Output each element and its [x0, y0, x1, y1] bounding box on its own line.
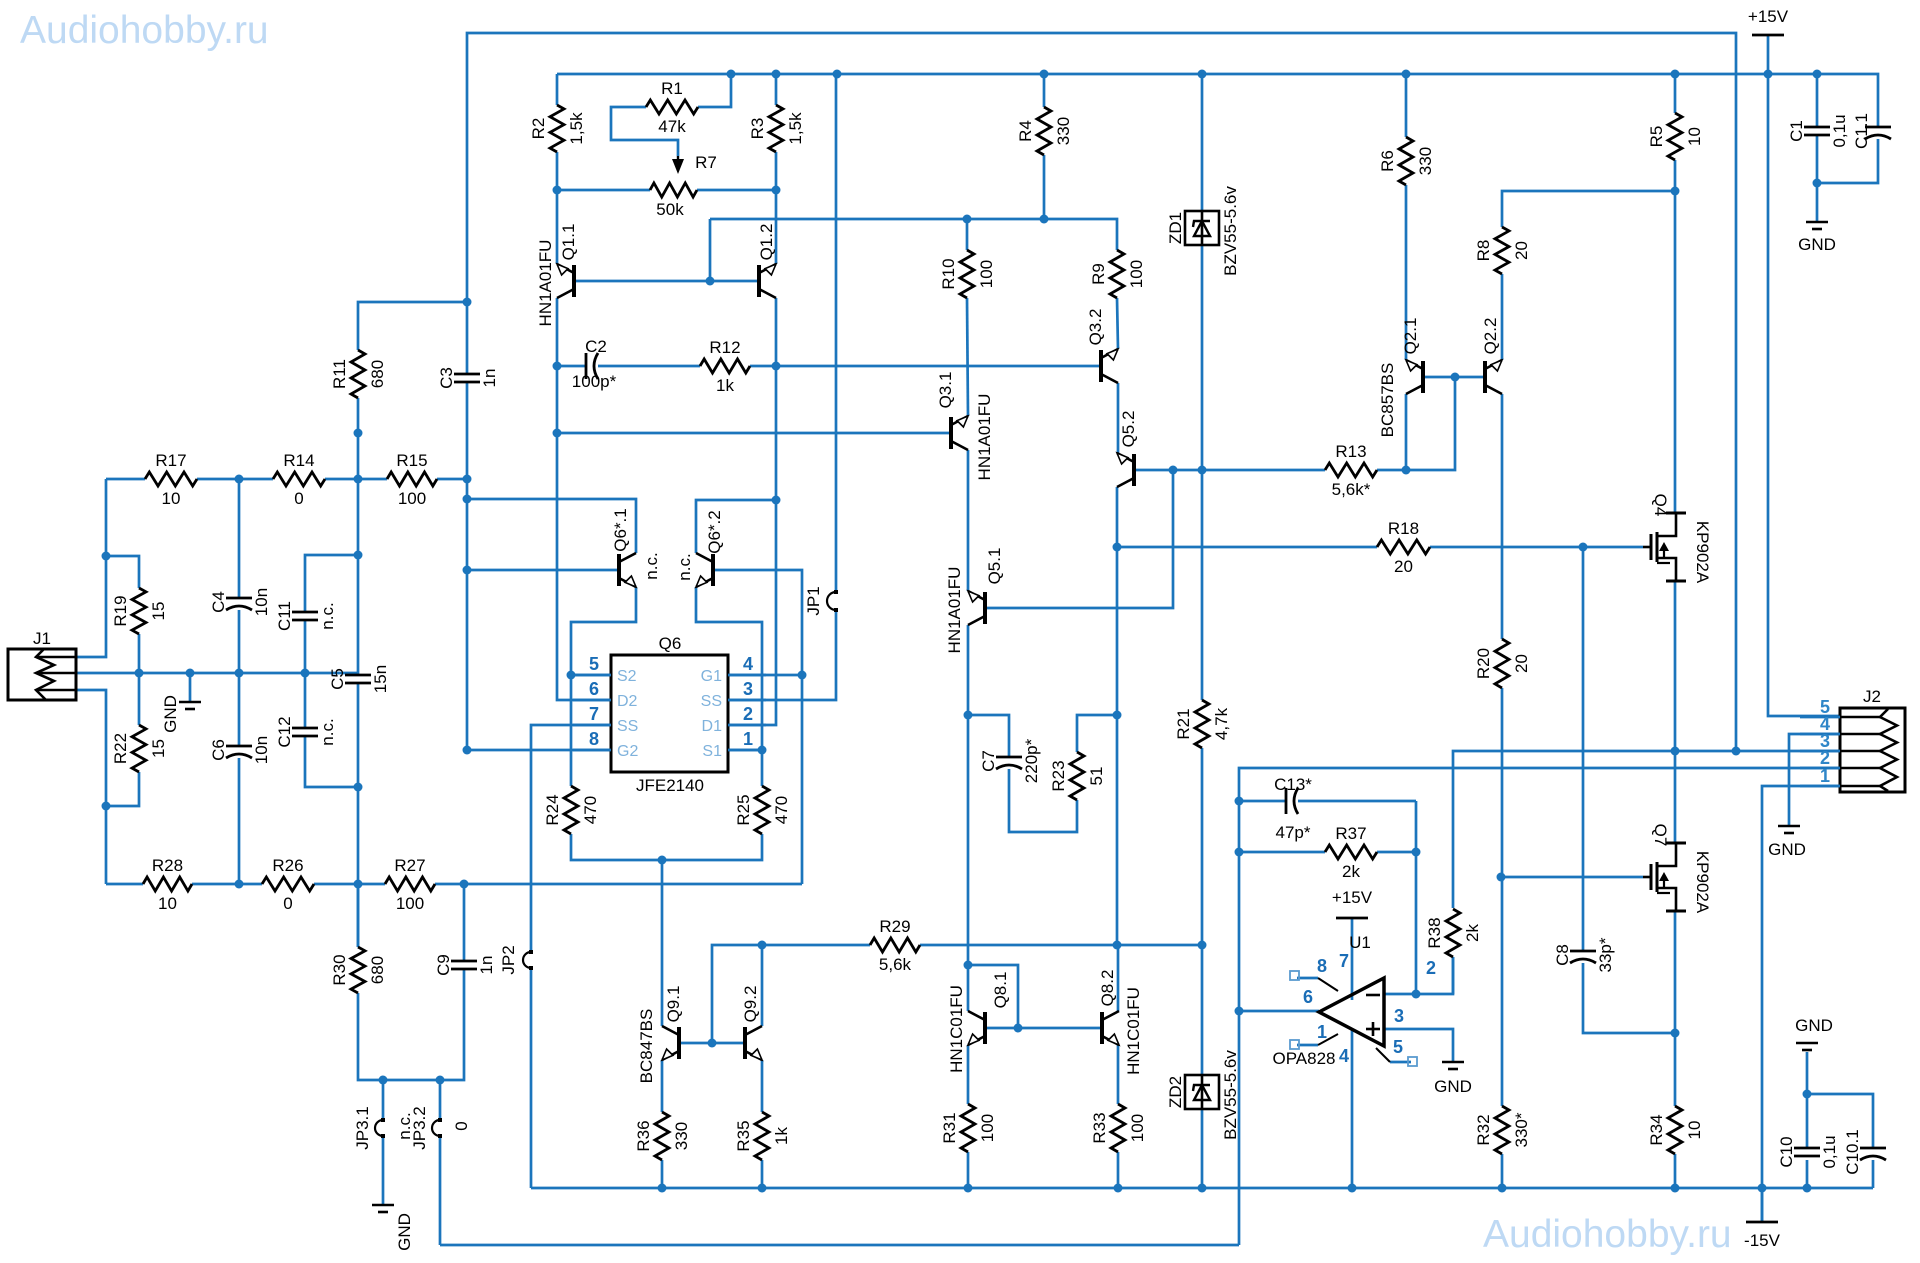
wire C6 bottom lead [238, 758, 241, 884]
wire JP3.2 top lead [439, 1080, 442, 1120]
transistor Q5.2 [1132, 454, 1136, 486]
svg-text:R1: R1 [661, 79, 683, 98]
svg-text:D1: D1 [702, 718, 723, 735]
wire Q5.1 collector down [967, 625, 970, 1011]
wire R22 top lead [138, 673, 141, 725]
junction (1239,852) [1235, 848, 1244, 857]
svg-text:2: 2 [743, 704, 753, 724]
junction (1118,1188) [1114, 1184, 1123, 1193]
wire R22 bottom lead [106, 772, 139, 806]
svg-text:GND: GND [1798, 235, 1836, 254]
svg-text:47k: 47k [658, 117, 686, 136]
resistor R18 [1377, 540, 1430, 554]
wire R8 top lead [1502, 191, 1675, 227]
svg-text:HN1A01FU: HN1A01FU [945, 567, 964, 654]
junction (968,965) [964, 961, 973, 970]
wire R27 right lead to G1 column [435, 883, 802, 886]
wire +15V rail y74 [557, 74, 1878, 127]
wire C9 bottom to JP3 loop [358, 969, 464, 1080]
wire C4 top lead [238, 479, 241, 598]
ground at C10 [1796, 1042, 1818, 1045]
wire R6 top lead [1405, 74, 1408, 137]
junction (731,74) [727, 70, 736, 79]
wire D2/Q1.1-collector row y433 [557, 432, 952, 435]
junction (106,556) [102, 552, 111, 561]
svg-text:6: 6 [589, 679, 599, 699]
svg-text:HN1A01FU: HN1A01FU [536, 240, 555, 327]
svg-text:100: 100 [396, 894, 424, 913]
svg-text:Q8.1: Q8.1 [991, 972, 1010, 1009]
wire output column R5 to Q4 drain [1674, 191, 1677, 513]
wire R10 top lead [966, 219, 969, 250]
resistor R23 [1070, 752, 1084, 800]
resistor R26 [262, 877, 314, 891]
junction (776,500) [772, 496, 781, 505]
junction (1352,1188) [1348, 1184, 1357, 1193]
svg-text:C3: C3 [437, 367, 456, 389]
svg-text:C8: C8 [1553, 944, 1572, 966]
wire G1 pin4 lead [728, 674, 802, 677]
wire Q5.2 base row [1134, 469, 1325, 472]
Q6 pin 1 S1 [728, 749, 766, 752]
wire Q6 pin7 SS to JP2 column [531, 725, 611, 952]
wire J1 pin1 up to R17/R19 node [76, 479, 106, 657]
junction (1762,1188) [1758, 1184, 1767, 1193]
svg-text:n.c.: n.c. [675, 553, 694, 580]
junction (1807,1094) [1803, 1090, 1812, 1099]
junction (1455,377) [1451, 373, 1460, 382]
junction (358,555) [354, 551, 363, 560]
svg-text:1,5k: 1,5k [567, 112, 586, 145]
wire Q6*.1 emitter to S2 node [571, 587, 636, 675]
svg-text:KP902A: KP902A [1693, 521, 1712, 584]
svg-text:0,1u: 0,1u [1820, 1135, 1839, 1168]
resistor R2 [550, 105, 564, 152]
svg-text:50k: 50k [656, 200, 684, 219]
wire R23 top [1077, 715, 1117, 752]
wire R3 top lead [775, 74, 778, 105]
junction (1202,74) [1198, 70, 1207, 79]
svg-text:S2: S2 [617, 668, 637, 685]
wire feedback row to JP3.2 [440, 1244, 1239, 1247]
capacitor C7 [996, 756, 1022, 759]
svg-text:JP3.1: JP3.1 [353, 1106, 372, 1149]
junction (467,302) [463, 298, 472, 307]
resistor R25 [755, 786, 769, 834]
svg-text:10n: 10n [252, 588, 271, 616]
wire C10.1 branch [1807, 1094, 1873, 1148]
wire JP3.1 bottom to GND [382, 1136, 385, 1205]
svg-text:JP3.2: JP3.2 [410, 1106, 429, 1149]
power -15V [1746, 1221, 1778, 1224]
transistor Q6*.1 [617, 554, 621, 586]
wire Q9 base row [679, 1042, 745, 1045]
capacitor C4 [226, 597, 252, 600]
wire R5 bottom lead [1674, 160, 1677, 191]
resistor R21 [1195, 700, 1209, 748]
svg-text:Q5.2: Q5.2 [1119, 411, 1138, 448]
capacitor C10 [1794, 1147, 1820, 1150]
svg-text:4,7k: 4,7k [1212, 707, 1231, 740]
svg-text:Q6: Q6 [659, 634, 682, 653]
svg-text:R8: R8 [1474, 240, 1493, 262]
svg-text:R30: R30 [330, 954, 349, 985]
svg-text:+15V: +15V [1332, 888, 1373, 907]
wire C7 bottom loop to R23 [1009, 769, 1077, 832]
capacitor C6 [226, 745, 252, 748]
wire opamp -input pin2 [1384, 957, 1453, 994]
wire opamp pin1 stub [1297, 1044, 1318, 1047]
junction (1416,994) [1412, 990, 1421, 999]
wire Q8.2 collector up [1117, 945, 1120, 1011]
junction (383,1080) [379, 1076, 388, 1085]
capacitor C8 [1570, 950, 1596, 953]
junction (1406,74) [1402, 70, 1411, 79]
transistor Q9.2 [743, 1027, 747, 1059]
junction (1202,945) [1198, 941, 1207, 950]
resistor R34 [1668, 1106, 1682, 1154]
wire ZD2 top [1201, 945, 1204, 1075]
junction (1817,183) [1813, 179, 1822, 188]
junction (662,860) [658, 856, 667, 865]
ground at C1 [1806, 221, 1828, 224]
resistor R20 [1495, 639, 1509, 688]
svg-text:C5: C5 [328, 668, 347, 690]
svg-text:15: 15 [149, 739, 168, 758]
wire R28 row left [106, 883, 143, 886]
junction (1807,1188) [1803, 1184, 1812, 1193]
wire Q9.1 emitter to R36 [661, 1060, 664, 1112]
transistor Q5.1 [983, 592, 987, 624]
capacitor C1.1 [1865, 126, 1891, 129]
svg-text:R28: R28 [152, 856, 183, 875]
svg-text:100: 100 [1128, 1114, 1147, 1142]
wire C10 bottom to rail [1806, 1160, 1809, 1188]
svg-text:R33: R33 [1090, 1112, 1109, 1143]
svg-text:BZV55-5.6v: BZV55-5.6v [1221, 1050, 1240, 1140]
wire Q2 base row [1423, 376, 1486, 379]
svg-text:Q6*.1: Q6*.1 [611, 508, 630, 551]
wire R10 bottom to Q3.1 [967, 298, 968, 416]
junction (1768,74) [1764, 70, 1773, 79]
resistor R28 [143, 877, 192, 891]
svg-text:Q2.2: Q2.2 [1481, 318, 1500, 355]
junction (358,787) [354, 783, 363, 792]
capacitor C5 [345, 674, 371, 677]
svg-text:G1: G1 [701, 668, 722, 685]
svg-text:R4: R4 [1016, 120, 1035, 142]
svg-text:470: 470 [772, 796, 791, 824]
svg-text:R36: R36 [634, 1120, 653, 1151]
junction (239,884) [235, 880, 244, 889]
svg-text:ZD1: ZD1 [1166, 212, 1185, 244]
svg-text:SS: SS [617, 718, 638, 735]
wire R21 bottom to mirror node [1201, 748, 1204, 945]
resistor R11 [351, 350, 365, 398]
wire R37 right lead [1377, 851, 1416, 854]
wire Q9 base up to mirror row [712, 945, 870, 1043]
wire Q6 pin3 SS lead to JP1 column [728, 610, 836, 700]
svg-text:J1: J1 [33, 629, 51, 648]
wire R5 top lead [1674, 74, 1677, 113]
resistor R37 [1325, 845, 1377, 859]
wire R20 bottom to Q7 gate node [1501, 688, 1504, 1106]
svg-text:100: 100 [398, 489, 426, 508]
junction (1202,1188) [1198, 1184, 1207, 1193]
wire Q3.2 to Q5.2 link [1117, 383, 1120, 453]
power +15V top [1752, 34, 1784, 37]
resistor R27 [385, 877, 435, 891]
J2 pin 4 lead [1800, 733, 1840, 736]
transistor Q3.2 [1099, 350, 1103, 382]
svg-text:R27: R27 [394, 856, 425, 875]
wire R12 to Q3.2 base row [750, 365, 1102, 368]
transistor Q8.2 [1100, 1012, 1104, 1044]
wire Q6*.2 emitter to S1 node [696, 587, 762, 750]
svg-text:1: 1 [1820, 766, 1830, 786]
resistor R29 [870, 938, 920, 952]
svg-text:S1: S1 [702, 743, 722, 760]
svg-text:GND: GND [1768, 840, 1806, 859]
svg-text:JP2: JP2 [499, 945, 518, 974]
wire R33 bottom to rail [1117, 1152, 1120, 1188]
wire R1 left loop to R7 wiper [611, 107, 678, 156]
svg-text:G2: G2 [617, 743, 638, 760]
wire R7 left lead [557, 189, 650, 192]
J2 pin 3 lead [1800, 750, 1840, 753]
transistor Q1.2 [757, 265, 761, 297]
svg-text:ZD2: ZD2 [1166, 1076, 1185, 1108]
svg-text:GND: GND [161, 695, 180, 733]
svg-text:1n: 1n [477, 956, 496, 975]
svg-text:R2: R2 [529, 118, 548, 140]
jumper JP3.1 [375, 1120, 383, 1136]
capacitor C13 [1285, 788, 1288, 814]
svg-text:C4: C4 [209, 591, 228, 613]
wire Q4 source to output node [1674, 581, 1677, 843]
resistor R36 [655, 1112, 669, 1160]
svg-text:D2: D2 [617, 693, 638, 710]
wire R32 bottom to rail [1501, 1154, 1504, 1188]
svg-text:C7: C7 [979, 750, 998, 772]
junction (1406,470) [1402, 466, 1411, 475]
svg-text:680: 680 [368, 956, 387, 984]
svg-text:100: 100 [978, 1114, 997, 1142]
wire R7 right lead [697, 189, 776, 192]
resistor R9 [1110, 250, 1124, 298]
resistor R15 [387, 472, 437, 486]
junction (571,675) [567, 671, 576, 680]
wire opamp pin8 stub [1297, 977, 1318, 980]
svg-text:R24: R24 [543, 794, 562, 825]
svg-text:R17: R17 [155, 451, 186, 470]
transistor Q9.1 [677, 1027, 681, 1059]
junction (762,1188) [758, 1184, 767, 1193]
junction (1675,1188) [1671, 1184, 1680, 1193]
svg-text:C9: C9 [434, 954, 453, 976]
svg-text:330: 330 [1054, 117, 1073, 145]
resistor R32 [1495, 1106, 1509, 1154]
svg-text:10n: 10n [252, 736, 271, 764]
svg-text:7: 7 [1339, 951, 1349, 971]
resistor R24 [564, 786, 578, 834]
capacitor C2 [585, 353, 588, 379]
wire C9 top lead [463, 884, 466, 961]
Q6 pin 2 D1 [728, 724, 766, 727]
svg-text:10: 10 [162, 489, 181, 508]
wire x106 down to R28 row [105, 806, 108, 884]
wire Q2.1 collector [1405, 394, 1408, 470]
wire C13 left lead [1239, 800, 1286, 803]
Q6 pin 5 S2 [573, 674, 611, 677]
svg-text:100: 100 [977, 260, 996, 288]
junction (1018,1028) [1014, 1024, 1023, 1033]
svg-text:5: 5 [1393, 1037, 1403, 1057]
svg-text:R31: R31 [940, 1112, 959, 1143]
svg-text:HN1A01FU: HN1A01FU [975, 394, 994, 481]
junction (557,433) [553, 429, 562, 438]
resistor R12 [700, 359, 750, 373]
wire R26-R27 link [314, 883, 385, 886]
svg-text:BC847BS: BC847BS [637, 1009, 656, 1084]
junction (1117,547) [1113, 543, 1122, 552]
svg-text:R20: R20 [1474, 648, 1493, 679]
transistor Q6*.2 [711, 554, 715, 586]
wire bias row y219 to R9 [710, 219, 1117, 250]
wire C5 bottom link [357, 683, 360, 684]
junction (239,479) [235, 475, 244, 484]
wire Q9.2 emitter to R35 [761, 1060, 764, 1112]
svg-text:330: 330 [672, 1122, 691, 1150]
wire J2 pin1 to -15V [1762, 786, 1840, 1222]
svg-text:R19: R19 [111, 595, 130, 626]
wire R4 bottom to bias row [1043, 155, 1046, 219]
svg-text:2k: 2k [1463, 924, 1482, 942]
svg-text:Q6*.2: Q6*.2 [705, 510, 724, 553]
svg-text:Q9.1: Q9.1 [664, 986, 683, 1023]
wire Q1.2 collector column x776 to D1 pin2 [728, 298, 776, 725]
wire C10.1 bottom to rail [1872, 1160, 1875, 1188]
junction (1675,191) [1671, 187, 1680, 196]
wire Q3.1 collector-emitter column to Q5.1 [967, 450, 970, 591]
svg-text:8: 8 [1317, 956, 1327, 976]
wire feedback column to -input [1238, 1011, 1241, 1245]
svg-text:-15V: -15V [1744, 1231, 1781, 1250]
svg-text:10: 10 [1685, 1121, 1704, 1140]
wire C2 left lead [557, 365, 586, 368]
svg-text:GND: GND [395, 1213, 414, 1251]
svg-text:C11: C11 [275, 601, 294, 631]
wire R13 right to Q2.1 collector node [1377, 377, 1455, 470]
junction (1117,945) [1113, 941, 1122, 950]
connector J2 [1840, 708, 1905, 792]
wire Q6*.2 collector branch [696, 500, 776, 553]
junction (967,219) [963, 215, 972, 224]
svg-text:R18: R18 [1388, 519, 1419, 538]
wire JP3.1 top lead [382, 1080, 385, 1120]
wire R21 top lead [1201, 470, 1204, 700]
wire R28-R26 link [192, 883, 262, 886]
wire R38 gnd-side corner [1452, 957, 1455, 994]
wire C1 bottom row to C1.1 [1817, 139, 1878, 183]
wire Q1 base row [574, 280, 759, 283]
wire output row J2 pin3 with R38 corner [1453, 751, 1840, 908]
svg-text:0: 0 [294, 489, 303, 508]
wire opamp +input pin3 to GND [1384, 1029, 1453, 1062]
svg-text:R23: R23 [1049, 760, 1068, 791]
svg-text:5,6k: 5,6k [879, 955, 912, 974]
svg-text:20: 20 [1394, 557, 1413, 576]
wire Q2.2 collector down through R20 to Q7 gate node [1501, 394, 1504, 639]
junction (762,945) [758, 941, 767, 950]
svg-text:R11: R11 [330, 359, 349, 389]
junction (1502,1188) [1498, 1184, 1507, 1193]
wire Q9.2 collector up [761, 945, 764, 1026]
svg-text:Q4: Q4 [1651, 494, 1670, 517]
svg-text:GND: GND [1434, 1077, 1472, 1096]
svg-text:JFE2140: JFE2140 [636, 776, 704, 795]
junction (837,74) [833, 70, 842, 79]
wire R31 bottom to rail [967, 1152, 970, 1188]
junction (1675,1033) [1671, 1029, 1680, 1038]
wire JP3.2 bottom to feedback row [439, 1136, 442, 1245]
svg-text:R35: R35 [734, 1120, 753, 1151]
jumper JP2 [523, 952, 531, 968]
resistor R35 [755, 1112, 769, 1160]
svg-text:15n: 15n [371, 665, 390, 693]
svg-text:Q3.1: Q3.1 [936, 372, 955, 409]
wire C13 right lead [1298, 800, 1416, 803]
wire R11 top branch [358, 302, 467, 350]
resistor R3 [769, 105, 783, 152]
wire source node down to Q9.1 collector [661, 860, 664, 1026]
wire R6 bottom to Q2.1 emitter [1405, 185, 1408, 360]
svg-text:1k: 1k [716, 376, 734, 395]
junction (467,750) [463, 746, 472, 755]
wire G2 row to Q6 pin8 [466, 749, 611, 752]
svg-text:3: 3 [743, 679, 753, 699]
junction (1044,219) [1040, 215, 1049, 224]
wire C8 bottom to R34 node [1583, 963, 1675, 1033]
svg-text:6: 6 [1303, 987, 1313, 1007]
op-amp U1 OPA828 [1319, 978, 1384, 1046]
svg-text:BZV55-5.6v: BZV55-5.6v [1221, 186, 1240, 276]
svg-text:Q5.1: Q5.1 [985, 548, 1004, 585]
resistor R1 [646, 100, 698, 114]
wire C1 top lead [1816, 74, 1819, 127]
wire S1 pin1 lead [728, 749, 762, 752]
wire Q5 base link down [985, 470, 1173, 608]
svg-text:C2: C2 [585, 337, 607, 356]
wire J2 pin2 row to C13 node [1239, 768, 1840, 1011]
junction (968,715) [964, 711, 973, 720]
svg-text:SS: SS [701, 693, 722, 710]
wire Q7 bottom to R34 [1674, 911, 1677, 1106]
wire base bias column x710 [709, 219, 712, 281]
wire C10 GND stub [1806, 1052, 1809, 1094]
resistor R31 [961, 1104, 975, 1152]
junction (106,806) [102, 802, 111, 811]
junction (467,499) [463, 495, 472, 504]
wire R11 bottom / input column x358 upper [357, 398, 360, 675]
wire C1 bottom to GND [1816, 135, 1819, 222]
wire opamp pin7 supply [1351, 918, 1354, 1000]
wire R15 right lead [437, 478, 467, 481]
J2 pin 5 lead [1800, 716, 1840, 719]
jumper JP1 [827, 592, 836, 610]
wire ZD1 bottom to base node [1201, 245, 1204, 470]
resistor R19 [132, 588, 146, 634]
